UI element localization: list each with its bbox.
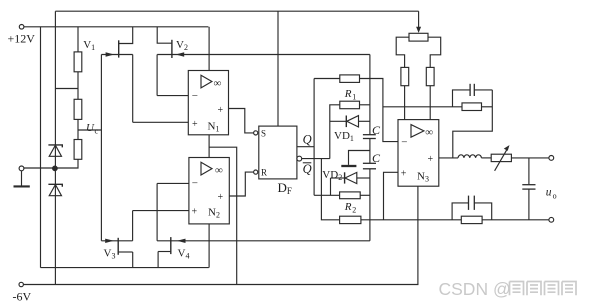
svg-text:o: o xyxy=(553,191,557,200)
wire N1 bottom to N2 top xyxy=(208,135,210,158)
R input bubble xyxy=(254,170,258,174)
wire Q to R2 xyxy=(314,194,340,196)
svg-text:+: + xyxy=(401,168,407,179)
zener diode lower xyxy=(48,184,62,187)
resistor R1 xyxy=(340,101,360,109)
capacitor C upper xyxy=(363,134,376,136)
wire Qbar output xyxy=(302,158,330,160)
resistor pot right xyxy=(426,67,434,85)
wire mid supply branch xyxy=(209,147,237,284)
wire -6V rail xyxy=(23,284,418,286)
wire output row xyxy=(511,157,548,159)
rheostat arrow xyxy=(495,149,508,171)
wire V3 source drop xyxy=(132,252,134,268)
wire Q to upper resistor xyxy=(314,78,340,80)
wire N1 non-inverting input xyxy=(133,121,189,123)
svg-text:−: − xyxy=(192,178,198,190)
svg-text:S: S xyxy=(261,129,266,139)
svg-text:+: + xyxy=(218,105,224,116)
wire pot right leg xyxy=(428,37,441,67)
wire N2 non-inverting input xyxy=(133,210,189,212)
resistor pot left xyxy=(401,67,409,85)
wire Qbar up to R1/VD1 xyxy=(330,105,340,159)
wire upper resistor to N3 inverting xyxy=(360,79,399,142)
wire V2 source column xyxy=(156,55,158,96)
wire pot right to N3 xyxy=(429,86,431,120)
transistor V2 xyxy=(171,40,173,58)
wire timing chain column xyxy=(369,55,371,135)
capacitor feedback xyxy=(453,90,471,107)
wire branch to chain xyxy=(55,88,78,90)
wire chain b-c xyxy=(77,119,79,139)
wire Q output xyxy=(297,146,314,148)
svg-text:C: C xyxy=(372,123,381,137)
wire N3 output xyxy=(439,157,458,159)
svg-text:∞: ∞ xyxy=(425,127,433,139)
wire pot left leg xyxy=(396,37,409,67)
resistor bottom (Qbar to N3+) xyxy=(340,216,361,223)
svg-text:-6V: -6V xyxy=(13,290,32,304)
svg-text:−: − xyxy=(192,90,198,102)
wire Q node column xyxy=(313,79,315,196)
op-amp N1 box xyxy=(188,71,228,135)
transistor V1 xyxy=(118,40,120,57)
-6V terminal xyxy=(19,282,23,286)
wire Uc tap xyxy=(78,129,101,131)
wire VD2/R2 left link xyxy=(330,178,332,195)
wire V1 source column xyxy=(132,55,134,123)
svg-text:R: R xyxy=(261,168,267,178)
resistor feedback xyxy=(462,103,482,111)
svg-text:∞: ∞ xyxy=(215,165,223,177)
svg-text:u: u xyxy=(546,187,552,199)
svg-text:2: 2 xyxy=(352,206,356,215)
svg-text:CSDN @: CSDN @ xyxy=(439,279,511,299)
wire V3 drain column xyxy=(132,211,134,241)
wire feedback row xyxy=(383,106,462,108)
capacitor bottom RC xyxy=(452,203,468,220)
wire mid tap xyxy=(349,151,370,165)
S input bubble xyxy=(254,131,258,135)
potentiometer body xyxy=(409,33,428,41)
wire V4 drain column xyxy=(156,183,158,240)
wire top supply rail xyxy=(55,10,418,12)
wire N3 non-inverting input xyxy=(384,172,399,220)
svg-text:R: R xyxy=(344,201,352,213)
transistor V3 xyxy=(117,238,119,255)
potentiometer arrow xyxy=(418,11,420,28)
wire chain a-b xyxy=(77,72,79,100)
wire second left column xyxy=(40,27,42,268)
+12V terminal xyxy=(19,25,24,30)
svg-text:+: + xyxy=(218,192,224,203)
input terminal xyxy=(19,166,24,171)
wire N2 bottom xyxy=(208,224,210,268)
resistor upper (integrator input) xyxy=(340,75,360,83)
svg-text:C: C xyxy=(372,151,381,165)
wire N3 bottom supply xyxy=(417,186,419,284)
svg-text:+: + xyxy=(428,154,434,165)
svg-text:−: − xyxy=(401,136,407,148)
capacitor output xyxy=(528,158,530,184)
wire N2 inverting input xyxy=(157,182,189,184)
ground xyxy=(21,171,23,186)
resistor chain R-c xyxy=(74,140,82,160)
resistor chain R-a xyxy=(74,52,82,72)
svg-text:c: c xyxy=(95,127,99,136)
svg-text:+12V: +12V xyxy=(8,32,36,46)
inductor L xyxy=(458,155,481,158)
wire left column through zeners xyxy=(54,11,56,284)
wire V1 gate column xyxy=(100,55,102,241)
thick bar electrode xyxy=(341,165,356,167)
wire pot left to N3 xyxy=(404,86,406,120)
op-amp N3 box xyxy=(398,120,439,187)
resistor chain R-b xyxy=(74,99,82,119)
wire R2 right xyxy=(360,194,370,196)
wire R1 right xyxy=(360,104,370,106)
output terminal top xyxy=(549,156,554,161)
transistor V4 xyxy=(170,237,172,254)
svg-text:Q: Q xyxy=(303,162,312,176)
wire N1 output to S xyxy=(229,109,254,133)
Qbar output bubble xyxy=(297,156,302,161)
svg-text:1: 1 xyxy=(352,93,356,102)
svg-text:+: + xyxy=(192,207,198,218)
wire N2 output to R xyxy=(229,172,253,196)
wire Qbar drop to bottom resistor xyxy=(321,159,339,220)
resistor R2 xyxy=(340,192,361,199)
wire feedback to output tap xyxy=(453,90,493,158)
diode VD2 xyxy=(331,177,345,179)
diode VD1 xyxy=(330,120,347,122)
flip-flop DF box xyxy=(259,126,297,179)
wire mid-bottom rail xyxy=(41,267,209,269)
op-amp N2 box xyxy=(189,158,229,224)
wire N1 inverting input xyxy=(157,95,188,97)
svg-text:Q: Q xyxy=(303,133,312,147)
zener diode upper xyxy=(48,145,62,148)
resistor chain top wire xyxy=(77,27,79,52)
wire +12V rail xyxy=(24,26,208,28)
wire N1 +supply xyxy=(208,27,210,71)
wire V4 source drop xyxy=(157,252,159,268)
svg-text:∞: ∞ xyxy=(214,78,222,90)
svg-text:R: R xyxy=(344,88,352,100)
node junction dot xyxy=(53,166,58,171)
svg-text:+: + xyxy=(192,119,198,130)
wire bottom row xyxy=(361,219,461,221)
wire chain bottom to node xyxy=(24,159,78,168)
wire DF top supply xyxy=(277,11,279,126)
rheostat body xyxy=(491,154,511,161)
resistor bottom RC xyxy=(461,216,482,223)
wire to rheostat xyxy=(481,157,491,159)
output terminal bottom xyxy=(549,217,554,222)
capacitor C lower xyxy=(363,162,376,164)
